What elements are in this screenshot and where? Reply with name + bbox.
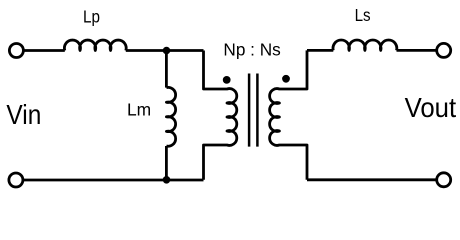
inductor Lm xyxy=(166,87,175,146)
wire: bottom left return xyxy=(16,179,204,182)
inductor Ls xyxy=(333,40,397,50)
node: top junction of Lm tap xyxy=(163,47,171,55)
svg-text:Vin: Vin xyxy=(6,99,41,130)
terminal: Vin+ xyxy=(9,44,23,58)
transformer T1 primary winding xyxy=(204,51,237,180)
wire: secondary top to Ls xyxy=(307,49,333,52)
svg-text:Vout: Vout xyxy=(405,92,457,123)
wire: Lm branch bottom segment xyxy=(165,146,168,180)
node: bottom junction of Lm tap xyxy=(163,176,171,184)
svg-text:Np : Ns: Np : Ns xyxy=(223,40,281,60)
terminal: Vout- xyxy=(437,173,451,187)
transformer T1 secondary winding xyxy=(270,50,307,179)
polarity dot: primary xyxy=(223,76,231,84)
inductor Lp xyxy=(64,40,126,50)
transformer core xyxy=(249,74,257,147)
svg-text:Lp: Lp xyxy=(83,6,100,26)
wire: bottom right return xyxy=(307,178,444,181)
wire: Lm branch top segment xyxy=(165,51,168,88)
wire: Ls to Vout+ terminal xyxy=(397,49,444,52)
svg-text:Lm: Lm xyxy=(127,100,151,120)
wire: Lp to transformer primary top xyxy=(126,49,204,52)
terminal: Vin- xyxy=(9,173,23,187)
polarity dot: secondary xyxy=(282,75,290,83)
svg-text:Ls: Ls xyxy=(355,5,371,25)
wire: Vin+ terminal to Lp xyxy=(16,49,64,52)
terminal: Vout+ xyxy=(437,43,451,57)
